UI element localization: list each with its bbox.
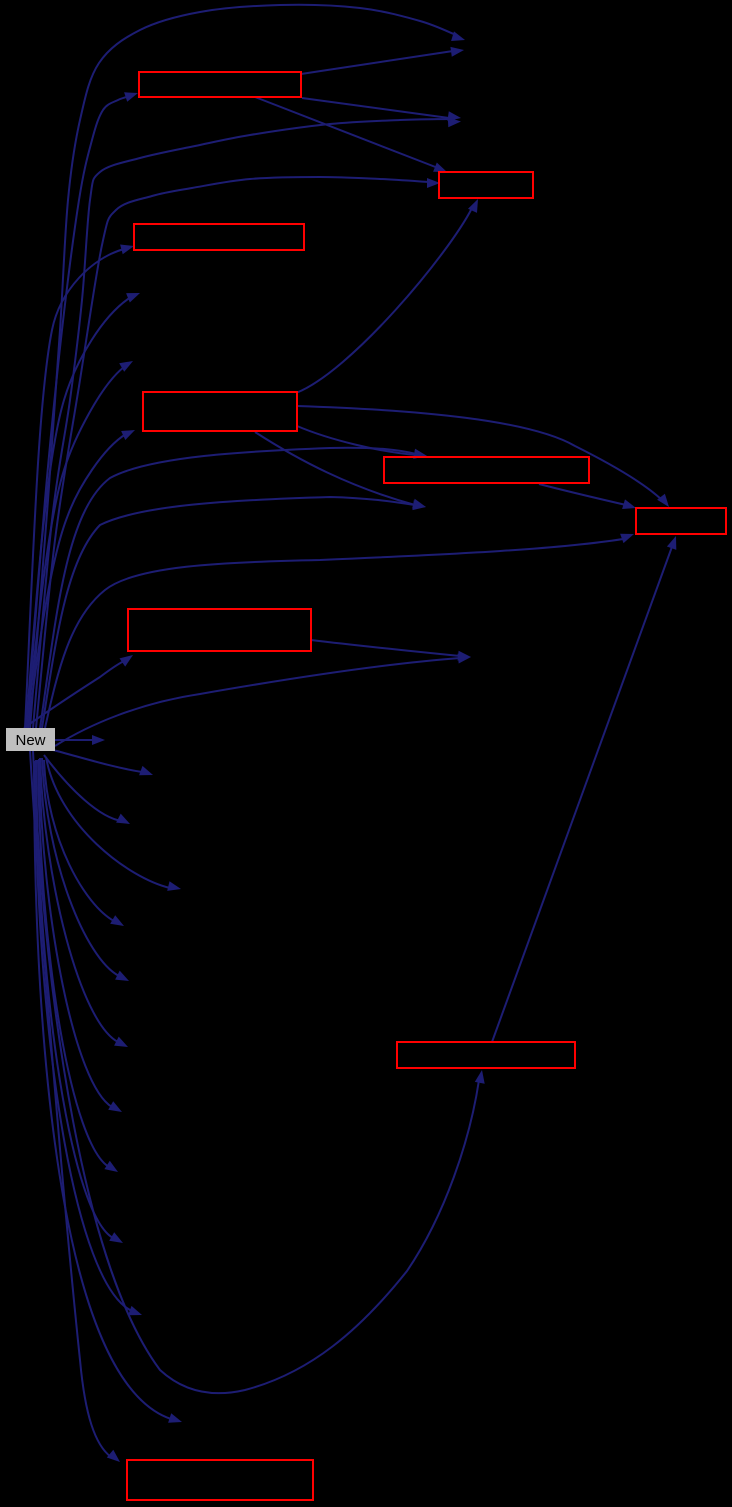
wire box1->nodeC xyxy=(302,98,449,118)
node New xyxy=(6,728,55,751)
wire New->box9 xyxy=(30,751,111,1457)
arrowhead New->nodeS xyxy=(168,1413,182,1423)
arrowhead New->nodeG xyxy=(458,654,472,664)
wire New->nodeH xyxy=(55,739,96,741)
wire New->nodeG xyxy=(55,658,460,746)
wire New->nodeK xyxy=(46,757,170,888)
arrowhead New->nodeI xyxy=(139,766,153,775)
node box5 xyxy=(384,457,589,483)
wire New->nodeR xyxy=(35,761,132,1311)
arrowhead box1->nodeB xyxy=(450,47,464,57)
wire New->nodeF xyxy=(42,497,415,728)
arrowhead New->nodeM xyxy=(115,971,129,981)
wire box1->box2 xyxy=(255,97,438,168)
wire New->nodeS xyxy=(34,761,171,1419)
node box3 xyxy=(134,224,304,250)
node box6 xyxy=(636,508,726,534)
arrowhead box1->box2 xyxy=(433,163,447,173)
svg-text:New: New xyxy=(15,732,45,749)
wire New->nodeL xyxy=(44,760,114,921)
node box1 xyxy=(139,72,301,97)
wire New->box8 xyxy=(33,751,479,1393)
arrowhead New->nodeK xyxy=(167,881,181,891)
arrowhead New->nodeP xyxy=(104,1161,118,1172)
node box4 xyxy=(143,392,297,431)
wire box5->box6 xyxy=(539,484,626,505)
node box7 xyxy=(128,609,311,651)
node box9 xyxy=(127,1460,313,1500)
arrowhead New->box8 xyxy=(475,1070,485,1084)
arrowhead New->nodeD xyxy=(126,293,140,303)
arrowhead New->box6 xyxy=(620,534,634,543)
arrowhead New->nodeL xyxy=(110,915,124,926)
wire New->nodeE xyxy=(27,367,124,728)
arrowhead box4->box6 xyxy=(657,494,669,507)
wire box7->nodeG xyxy=(311,640,460,656)
arrowhead box5->box6 xyxy=(622,499,636,509)
wire box4->box5 xyxy=(297,426,416,455)
arrowhead New->box2 xyxy=(427,178,440,188)
wire box4->nodeF xyxy=(255,432,415,505)
arrowhead New->box1 xyxy=(124,92,138,102)
wire New->nodeJ xyxy=(44,755,122,821)
wire New->nodeO xyxy=(39,759,112,1107)
wire New->nodeC xyxy=(33,119,448,728)
arrowhead box1->nodeC xyxy=(447,111,461,121)
wire New->box1 xyxy=(27,96,130,728)
arrowhead box7->nodeG xyxy=(458,651,472,661)
arrowhead New->nodeO xyxy=(108,1101,122,1112)
wire New->topnode xyxy=(30,5,456,728)
wire box4->box2 xyxy=(296,208,472,393)
arrowhead New->box5 xyxy=(413,449,427,459)
arrowhead New->topnode xyxy=(451,31,465,41)
arrowhead New->box3 xyxy=(120,245,134,255)
arrowhead New->nodeF xyxy=(412,500,426,510)
arrowhead box4->box2 xyxy=(468,199,478,213)
arrowhead New->box7 xyxy=(120,655,134,667)
wire New->nodeP xyxy=(38,760,109,1167)
wire New->box6 xyxy=(45,539,623,728)
arrowhead New->nodeR xyxy=(128,1306,142,1315)
wire box4->box6 xyxy=(297,406,662,500)
arrowhead New->nodeH xyxy=(92,735,105,745)
wire New->box5 xyxy=(40,448,416,728)
wire New->box3 xyxy=(25,249,124,728)
arrowhead New->box9 xyxy=(107,1450,120,1462)
wire box8->box6 xyxy=(492,544,673,1042)
arrowhead box4->nodeF xyxy=(412,499,426,509)
wire New->box2 xyxy=(36,177,428,728)
wire New->nodeI xyxy=(53,750,142,772)
arrowhead New->nodeJ xyxy=(116,814,130,824)
arrowhead box8->box6 xyxy=(667,536,676,550)
arrowhead New->nodeE xyxy=(119,361,133,372)
arrowhead New->nodeC xyxy=(448,117,461,127)
arrowhead New->nodeQ xyxy=(109,1232,123,1243)
wire New->box4 xyxy=(28,434,126,728)
wire New->nodeQ xyxy=(36,760,113,1238)
arrowhead New->nodeN xyxy=(114,1037,128,1047)
wire box1->nodeB xyxy=(301,51,453,74)
wire New->nodeD xyxy=(26,297,131,728)
wire New->box7 xyxy=(24,661,124,728)
arrowhead New->box4 xyxy=(121,430,135,440)
node box8 xyxy=(397,1042,575,1068)
wire New->nodeN xyxy=(40,758,118,1042)
wire New->nodeM xyxy=(42,758,119,976)
node box2 xyxy=(439,172,533,198)
arrowhead box4->box5 xyxy=(413,449,427,459)
